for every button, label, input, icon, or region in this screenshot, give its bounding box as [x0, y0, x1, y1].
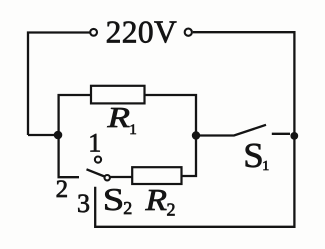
svg-text:1: 1 — [262, 159, 269, 174]
svg-text:2: 2 — [56, 176, 69, 203]
svg-text:R: R — [144, 182, 167, 217]
svg-text:3: 3 — [77, 189, 90, 218]
svg-text:S: S — [103, 181, 125, 217]
svg-text:R: R — [106, 103, 130, 134]
svg-text:1: 1 — [88, 128, 101, 157]
svg-text:220V: 220V — [106, 15, 178, 50]
svg-text:2: 2 — [123, 198, 132, 218]
svg-text:2: 2 — [167, 199, 176, 219]
svg-text:1: 1 — [129, 122, 137, 138]
svg-text:S: S — [243, 136, 263, 175]
